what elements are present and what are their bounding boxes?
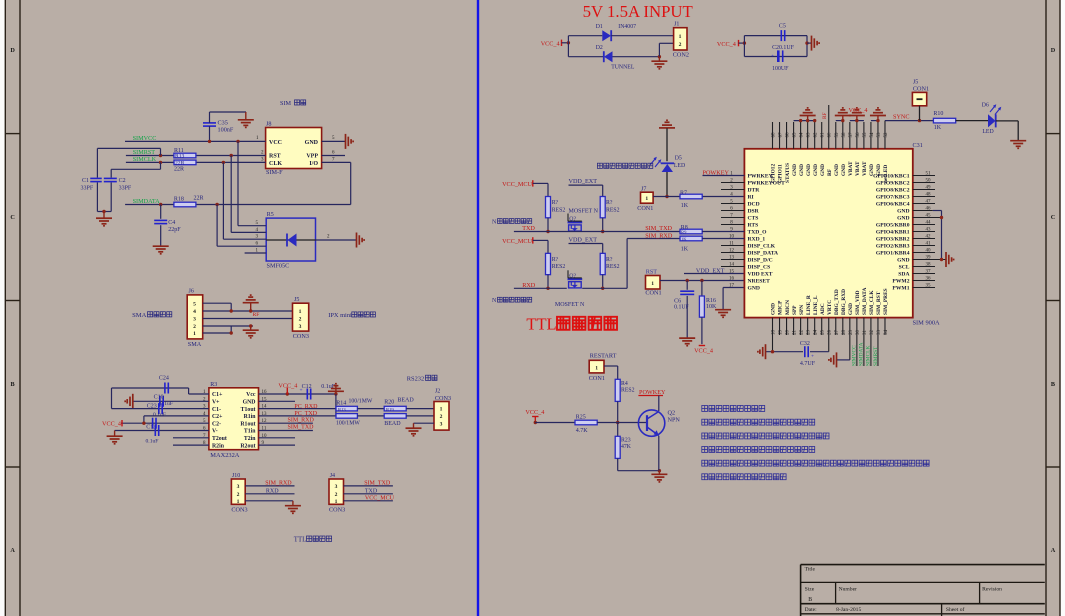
svg-text:SPN: SPN	[799, 305, 805, 315]
svg-text:1K: 1K	[681, 237, 687, 242]
svg-text:1: 1	[595, 365, 598, 371]
svg-text:CON1: CON1	[913, 85, 929, 92]
svg-text:DTR: DTR	[748, 188, 761, 194]
svg-text:GPIO8/KBC2: GPIO8/KBC2	[876, 188, 910, 194]
svg-text:47K: 47K	[621, 444, 632, 450]
svg-text:Revision: Revision	[982, 587, 1002, 593]
svg-text:V+: V+	[212, 400, 220, 406]
svg-text:PC_RXD: PC_RXD	[294, 404, 318, 410]
svg-text:CON3: CON3	[231, 507, 247, 514]
svg-text:D: D	[1051, 47, 1056, 54]
svg-text:R?: R?	[606, 257, 613, 263]
svg-text:R5: R5	[267, 212, 274, 218]
svg-text:PWM2: PWM2	[892, 279, 909, 285]
svg-text:C2: C2	[119, 178, 126, 184]
svg-text:TUNNEL: TUNNEL	[611, 65, 635, 71]
svg-text:GND: GND	[897, 209, 909, 215]
svg-text:2: 2	[237, 492, 240, 498]
svg-text:LED: LED	[674, 163, 685, 169]
svg-text:R25: R25	[576, 415, 586, 421]
svg-text:RXD: RXD	[266, 489, 279, 495]
svg-text:SIM_TXD: SIM_TXD	[288, 424, 315, 430]
svg-text:GND: GND	[841, 164, 847, 176]
svg-text:GND: GND	[771, 303, 777, 315]
svg-text:3: 3	[299, 324, 302, 330]
svg-text:33PF: 33PF	[81, 185, 94, 191]
svg-text:J8: J8	[266, 121, 272, 128]
svg-text:C2+: C2+	[212, 414, 222, 420]
svg-text:CON1: CON1	[589, 375, 605, 382]
svg-text:T1in: T1in	[244, 429, 256, 435]
svg-text:4.7UF: 4.7UF	[800, 361, 816, 367]
svg-text:POWKEY: POWKEY	[703, 169, 730, 176]
svg-text:C1+: C1+	[212, 392, 222, 398]
svg-text:VDD_EXT: VDD_EXT	[696, 267, 725, 274]
svg-text:GND: GND	[876, 164, 882, 176]
svg-text:RF: RF	[827, 168, 833, 176]
svg-text:SIM-F: SIM-F	[266, 169, 283, 176]
svg-text:1K: 1K	[681, 203, 689, 209]
svg-text:GND: GND	[897, 216, 909, 222]
svg-text:A: A	[1051, 547, 1056, 554]
svg-text:C32: C32	[800, 341, 810, 347]
svg-text:1: 1	[193, 331, 196, 337]
svg-text:R14: R14	[336, 401, 346, 407]
svg-text:VCC_4: VCC_4	[541, 41, 560, 48]
svg-text:T1out: T1out	[241, 407, 256, 413]
svg-text:GPIO12: GPIO12	[771, 164, 777, 183]
svg-text:+: +	[811, 353, 814, 359]
svg-text:SIM_TXD: SIM_TXD	[645, 225, 672, 232]
svg-text:22R: 22R	[174, 167, 184, 173]
svg-text:R2out: R2out	[240, 443, 255, 449]
svg-text:3: 3	[335, 484, 338, 490]
svg-text:RXD: RXD	[522, 282, 536, 289]
svg-text:VCC_MCU: VCC_MCU	[365, 496, 395, 502]
svg-text:VCC_4: VCC_4	[525, 409, 544, 416]
svg-text:DISP_CS: DISP_CS	[748, 265, 771, 271]
svg-text:R3: R3	[210, 382, 217, 388]
svg-text:I/O: I/O	[309, 161, 318, 167]
svg-text:SIMCLK: SIMCLK	[133, 156, 157, 163]
svg-text:TTL: TTL	[294, 536, 306, 543]
svg-text:SIMDATA: SIMDATA	[859, 342, 865, 366]
svg-text:LED: LED	[982, 129, 993, 135]
svg-text:100/1MW: 100/1MW	[336, 421, 360, 427]
svg-text:SIM: SIM	[280, 100, 292, 107]
svg-text:CTS: CTS	[748, 216, 759, 222]
svg-text:SIMCLK: SIMCLK	[866, 346, 872, 366]
svg-text:16: 16	[729, 276, 735, 281]
svg-text:GPIO6/KBC4: GPIO6/KBC4	[876, 202, 910, 208]
svg-text:2: 2	[440, 414, 443, 420]
svg-text:C20.1UF: C20.1UF	[772, 45, 794, 51]
svg-text:1K: 1K	[934, 125, 942, 131]
svg-text:CLK: CLK	[269, 161, 282, 167]
svg-text:SIM 900A: SIM 900A	[913, 319, 941, 326]
svg-text:SMF05C: SMF05C	[267, 262, 290, 269]
svg-text:T2out: T2out	[212, 436, 227, 442]
svg-text:GPIO5/KBR0: GPIO5/KBR0	[876, 223, 910, 229]
svg-text:VCC_MCU: VCC_MCU	[502, 238, 532, 245]
svg-text:D2: D2	[596, 45, 603, 51]
svg-text:R10: R10	[933, 111, 943, 117]
svg-text:Size: Size	[805, 587, 815, 593]
svg-text:Q?: Q?	[569, 216, 576, 222]
svg-text:R19: R19	[386, 407, 394, 412]
svg-text:RES2: RES2	[552, 207, 566, 213]
svg-text:NPN: NPN	[668, 417, 681, 424]
svg-text:+: +	[771, 54, 774, 60]
svg-text:STATUS: STATUS	[785, 163, 791, 183]
svg-text:DISP_DATA: DISP_DATA	[748, 251, 779, 257]
svg-text:1: 1	[237, 499, 240, 505]
svg-text:RESTART: RESTART	[590, 353, 617, 360]
svg-text:POWKEY: POWKEY	[639, 389, 666, 396]
svg-text:VCC: VCC	[269, 140, 282, 146]
svg-text:D6: D6	[982, 103, 989, 109]
svg-text:GND: GND	[820, 164, 826, 176]
svg-text:DISP_CLK: DISP_CLK	[748, 244, 776, 250]
svg-text:VCC_MCU: VCC_MCU	[502, 181, 532, 188]
svg-text:GND: GND	[799, 164, 805, 176]
svg-text:0.1UF: 0.1UF	[674, 304, 689, 310]
svg-text:J1: J1	[674, 21, 679, 27]
svg-text:MAX232A: MAX232A	[210, 452, 239, 459]
svg-text:DBG_TXD: DBG_TXD	[834, 289, 840, 315]
svg-text:GND: GND	[806, 164, 812, 176]
svg-text:Q2: Q2	[668, 409, 676, 416]
svg-text:GND: GND	[834, 164, 840, 176]
svg-text:CON3: CON3	[329, 507, 345, 514]
svg-text:SIMDATA: SIMDATA	[133, 198, 161, 205]
svg-text:GND: GND	[813, 164, 819, 176]
svg-text:VCC_4: VCC_4	[717, 41, 736, 48]
svg-text:17: 17	[729, 283, 735, 288]
svg-text:N: N	[492, 298, 497, 304]
svg-text:8-Jan-2015: 8-Jan-2015	[836, 607, 861, 613]
svg-text:RST: RST	[269, 154, 281, 160]
svg-text:TXD: TXD	[365, 489, 378, 495]
svg-text:4.7K: 4.7K	[576, 428, 589, 434]
svg-text:C2-: C2-	[212, 421, 221, 427]
svg-text:J2: J2	[435, 389, 440, 395]
svg-text:VCC_4: VCC_4	[102, 420, 121, 427]
svg-text:D1: D1	[596, 24, 603, 30]
svg-text:RTS: RTS	[748, 223, 759, 229]
svg-text:3: 3	[193, 317, 196, 323]
svg-text:Date:: Date:	[805, 607, 818, 613]
svg-text:CON3: CON3	[435, 395, 451, 402]
svg-text:1: 1	[651, 281, 654, 287]
svg-text:1: 1	[440, 407, 443, 413]
svg-text:B: B	[11, 381, 15, 388]
svg-text:Title: Title	[805, 567, 816, 573]
svg-text:VCC_4: VCC_4	[694, 347, 713, 354]
svg-text:PWRKEY: PWRKEY	[748, 174, 773, 180]
svg-text:33PF: 33PF	[119, 185, 132, 191]
svg-text:RES2: RES2	[552, 264, 566, 270]
svg-text:C35: C35	[218, 119, 228, 126]
svg-text:NRESET: NRESET	[748, 279, 771, 285]
svg-text:Number: Number	[839, 587, 857, 593]
svg-text:22pF: 22pF	[168, 227, 181, 233]
svg-text:CON1: CON1	[637, 205, 653, 212]
svg-text:GND: GND	[792, 164, 798, 176]
svg-text:Sheet of: Sheet of	[946, 606, 965, 613]
svg-text:R20: R20	[384, 400, 394, 406]
svg-text:2: 2	[679, 42, 682, 48]
svg-text:4: 4	[193, 309, 196, 315]
svg-text:RS232: RS232	[407, 375, 424, 382]
svg-text:MOSFET N: MOSFET N	[555, 302, 585, 308]
svg-text:CON3: CON3	[293, 333, 309, 340]
svg-text:VDD_EXT: VDD_EXT	[569, 178, 598, 185]
svg-text:C1: C1	[82, 178, 89, 184]
svg-text:0.1uF: 0.1uF	[146, 439, 159, 445]
svg-text:C23: C23	[147, 404, 157, 410]
svg-text:J6: J6	[189, 289, 194, 295]
svg-text:T2in: T2in	[244, 436, 256, 442]
svg-text:RXD_1: RXD_1	[748, 237, 766, 243]
svg-text:GND: GND	[848, 303, 854, 315]
svg-text:SIMRST: SIMRST	[873, 346, 879, 366]
svg-text:SIM_PRES: SIM_PRES	[883, 288, 889, 315]
svg-text:MICN: MICN	[785, 300, 791, 315]
svg-text:GPIO4/KBR1: GPIO4/KBR1	[876, 230, 910, 236]
svg-text:SIM_VDD: SIM_VDD	[855, 290, 861, 315]
svg-text:VDD EXT: VDD EXT	[748, 272, 773, 278]
svg-text:C12: C12	[302, 384, 312, 390]
svg-text:RF: RF	[253, 312, 260, 318]
svg-text:SIM_RXD: SIM_RXD	[288, 417, 315, 423]
svg-text:CON2: CON2	[673, 52, 689, 59]
svg-text:BEAD: BEAD	[397, 397, 414, 403]
svg-text:C4: C4	[168, 220, 175, 226]
svg-text:MOSFET N: MOSFET N	[569, 208, 599, 214]
svg-text:VRTC: VRTC	[827, 300, 833, 315]
svg-text:1: 1	[299, 309, 302, 315]
svg-text:GPIO3/KBR2: GPIO3/KBR2	[876, 237, 910, 243]
svg-text:R1out: R1out	[240, 421, 255, 427]
svg-text:GND: GND	[869, 164, 875, 176]
svg-text:R9: R9	[681, 230, 687, 235]
svg-text:RES2: RES2	[606, 264, 620, 270]
svg-text:D5: D5	[675, 156, 682, 162]
svg-text:PWM1: PWM1	[892, 286, 909, 292]
svg-text:B: B	[808, 597, 812, 603]
svg-text:R?: R?	[552, 257, 559, 263]
svg-text:R16: R16	[706, 298, 716, 304]
svg-text:TTL: TTL	[526, 315, 556, 334]
svg-text:DSR: DSR	[748, 209, 760, 215]
svg-text:VDD_EXT: VDD_EXT	[569, 237, 598, 244]
svg-text:C: C	[1051, 214, 1055, 221]
svg-text:VCC_4: VCC_4	[278, 383, 297, 390]
svg-text:ADC: ADC	[820, 303, 826, 315]
svg-text:GPIO7/KBC3: GPIO7/KBC3	[876, 195, 910, 201]
svg-text:MICP: MICP	[778, 300, 784, 315]
svg-text:VPP: VPP	[306, 154, 318, 160]
svg-text:SIMVCC: SIMVCC	[133, 135, 157, 142]
svg-text:C5: C5	[779, 24, 786, 30]
svg-text:LINE_R: LINE_R	[806, 295, 812, 315]
svg-text:R4: R4	[621, 381, 628, 387]
svg-text:SDA: SDA	[898, 272, 909, 278]
svg-text:1: 1	[645, 196, 648, 202]
svg-text:C24: C24	[159, 376, 169, 382]
svg-text:Vcc: Vcc	[246, 392, 256, 398]
svg-text:R?: R?	[552, 200, 559, 206]
svg-text:1: 1	[679, 34, 682, 40]
svg-text:SCL: SCL	[899, 265, 910, 271]
svg-text:R23: R23	[621, 438, 631, 444]
svg-text:J10: J10	[232, 473, 240, 479]
svg-text:SMA: SMA	[132, 312, 147, 319]
svg-text:R2in: R2in	[212, 443, 225, 449]
svg-text:B: B	[1051, 381, 1055, 388]
svg-text:SIM_TXD: SIM_TXD	[364, 481, 391, 487]
svg-text:R7: R7	[680, 190, 687, 196]
svg-text:VCC_4: VCC_4	[849, 107, 868, 114]
svg-text:GND: GND	[748, 286, 760, 292]
svg-text:SIMVCC: SIMVCC	[852, 345, 858, 366]
svg-text:PC_TXD: PC_TXD	[294, 411, 317, 417]
svg-text:TXD: TXD	[522, 225, 535, 232]
svg-text:0.1uF: 0.1uF	[153, 412, 166, 418]
svg-text:2: 2	[193, 324, 196, 330]
svg-text:SPP: SPP	[792, 305, 798, 315]
svg-text:SYNC: SYNC	[893, 114, 910, 121]
svg-text:netLED: netLED	[883, 165, 889, 183]
svg-text:1K: 1K	[681, 247, 689, 253]
svg-text:2: 2	[335, 492, 338, 498]
svg-text:DCD: DCD	[748, 202, 760, 208]
svg-text:SIM_RXD: SIM_RXD	[645, 232, 673, 239]
svg-text:R?: R?	[606, 200, 613, 206]
svg-text:SIMRST: SIMRST	[133, 149, 156, 156]
svg-text:5: 5	[193, 301, 196, 307]
svg-text:R13: R13	[175, 154, 185, 160]
svg-text:VBAT: VBAT	[862, 161, 868, 176]
svg-text:VBAT: VBAT	[855, 161, 861, 176]
svg-text:SIM_RXD: SIM_RXD	[265, 481, 292, 487]
svg-text:5V 1.5A INPUT: 5V 1.5A INPUT	[583, 2, 693, 21]
svg-text:LINE_L: LINE_L	[813, 295, 819, 315]
svg-text:C10: C10	[154, 394, 164, 400]
svg-text:C: C	[10, 214, 14, 221]
svg-text:A: A	[10, 547, 15, 554]
svg-text:DISP_D/C: DISP_D/C	[748, 258, 773, 264]
svg-text:J5: J5	[294, 297, 299, 303]
svg-text:R18: R18	[174, 196, 184, 202]
svg-text:SMA: SMA	[188, 341, 202, 348]
svg-text:J7: J7	[641, 186, 646, 192]
svg-text:R1in: R1in	[244, 414, 257, 420]
svg-text:RES2: RES2	[621, 388, 635, 394]
svg-text:GND: GND	[897, 258, 909, 264]
svg-text:2: 2	[299, 317, 302, 323]
svg-text:22R: 22R	[194, 195, 204, 201]
svg-text:1: 1	[335, 499, 338, 505]
svg-text:3: 3	[440, 421, 443, 427]
svg-text:3: 3	[237, 484, 240, 490]
svg-text:Q?: Q?	[569, 273, 576, 279]
svg-text:100UF: 100UF	[772, 66, 789, 72]
svg-text:SIM_RST: SIM_RST	[876, 291, 882, 315]
svg-text:SIM_CLK: SIM_CLK	[869, 290, 875, 315]
svg-text:DBG_RXD: DBG_RXD	[841, 289, 847, 315]
svg-text:R13: R13	[338, 407, 346, 412]
svg-text:N: N	[492, 219, 497, 225]
svg-text:GND: GND	[305, 140, 319, 146]
svg-text:RI: RI	[748, 195, 754, 201]
svg-text:IN4007: IN4007	[618, 24, 636, 30]
svg-text:GND: GND	[243, 400, 256, 406]
svg-text:GPIO2/KBR3: GPIO2/KBR3	[876, 244, 910, 250]
svg-text:SIM_DATA: SIM_DATA	[862, 288, 868, 315]
svg-text:RF: RF	[822, 112, 828, 119]
svg-text:GPIO9/KBC2: GPIO9/KBC2	[876, 181, 910, 187]
svg-text:J4: J4	[330, 473, 335, 479]
svg-text:CON1: CON1	[645, 290, 661, 297]
svg-text:100nF: 100nF	[218, 127, 234, 134]
svg-text:BEAD: BEAD	[384, 421, 401, 427]
svg-text:TXD_O: TXD_O	[748, 230, 768, 236]
svg-text:IPX mini: IPX mini	[328, 312, 352, 319]
svg-text:C31: C31	[913, 142, 923, 149]
svg-text:D: D	[10, 47, 15, 54]
svg-text:GPIO11: GPIO11	[778, 164, 784, 183]
svg-text:C1-: C1-	[212, 407, 221, 413]
svg-text:VBAT: VBAT	[848, 161, 854, 176]
svg-text:15: 15	[729, 269, 735, 274]
svg-text:RES2: RES2	[606, 207, 620, 213]
svg-text:RST: RST	[646, 269, 658, 276]
svg-text:V-: V-	[212, 429, 218, 435]
svg-text:100/1MW: 100/1MW	[349, 399, 373, 405]
svg-text:GPIO1/KBR4: GPIO1/KBR4	[876, 251, 910, 257]
